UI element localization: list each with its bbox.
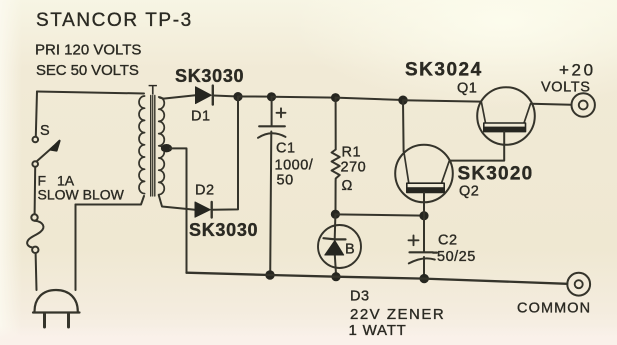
svg-text:SK3024: SK3024 — [405, 60, 483, 81]
zener D3 circle — [318, 225, 361, 268]
transistor Q1 base bar — [484, 123, 526, 132]
capacitor C1 curved plate — [258, 133, 286, 138]
AC plug body dome — [35, 290, 78, 312]
svg-text:R1: R1 — [342, 145, 362, 161]
transformer T primary winding — [139, 96, 145, 194]
transformer T secondary winding — [159, 97, 165, 195]
wire: fuse to plug left — [35, 253, 38, 290]
svg-text:PRI 120 VOLTS: PRI 120 VOLTS — [35, 42, 141, 59]
terminal: common — [567, 273, 590, 296]
switch S bottom terminal — [32, 161, 38, 167]
transistor Q2 base bar — [407, 183, 444, 192]
transistor Q1 circle — [477, 87, 535, 145]
svg-text:50/25: 50/25 — [437, 249, 476, 265]
svg-text:STANCOR TP-3: STANCOR TP-3 — [36, 10, 193, 31]
wire: top-left from corner to transformer primary top — [37, 92, 144, 94]
svg-text:1000/: 1000/ — [275, 158, 314, 174]
svg-text:SK3020: SK3020 — [458, 164, 534, 185]
diode D1 — [196, 87, 212, 104]
wire: rail to Q2 drop node — [336, 98, 404, 100]
zener D3 cathode bar — [324, 238, 346, 239]
fuse F bottom terminal — [32, 247, 38, 253]
capacitor C2 plus sign — [409, 236, 419, 246]
svg-text:D1: D1 — [191, 109, 211, 125]
AC plug base line — [33, 311, 80, 313]
wire: Q1 base down-left to Q2 — [450, 132, 504, 161]
wire: Q2 emitter lead — [423, 193, 425, 216]
wire: rail into Q1 — [403, 100, 481, 101]
svg-text:D3: D3 — [350, 289, 370, 305]
wire: C1 branch vertical bottom — [270, 132, 271, 276]
wire: secondary top to D1 anode — [160, 95, 196, 98]
wire: secondary bottom to D2 anode — [159, 195, 195, 210]
svg-text:T: T — [149, 82, 158, 98]
wire: center tap to down lead — [170, 148, 187, 272]
wire: plug right up to primary bottom run — [75, 205, 77, 291]
node: zener bottom — [331, 272, 340, 281]
svg-text:1 WATT: 1 WATT — [349, 322, 407, 339]
transistor Q2 left slant — [404, 153, 409, 184]
wire: Q1 emitter to +20 terminal — [532, 103, 572, 106]
svg-text:VOLTS: VOLTS — [541, 80, 590, 96]
node: C1 top — [267, 92, 276, 101]
svg-text:50: 50 — [277, 173, 294, 189]
svg-text:C1: C1 — [276, 141, 296, 157]
svg-text:270: 270 — [341, 160, 367, 176]
wire: switch to fuse — [34, 167, 37, 214]
svg-text:22V ZENER: 22V ZENER — [350, 306, 445, 323]
wire: rail to R1 node — [272, 96, 336, 99]
wire: primary bottom horizontal — [76, 196, 145, 205]
AC plug right prong — [67, 314, 70, 327]
switch S top terminal — [33, 137, 39, 143]
svg-text:D2: D2 — [195, 183, 215, 199]
wire: C2 branch vertical bottom — [423, 257, 425, 276]
capacitor C2 curved plate — [409, 258, 435, 263]
terminal: +20 volts — [572, 93, 595, 116]
svg-text:SEC 50 VOLTS: SEC 50 VOLTS — [36, 62, 139, 79]
svg-text:SLOW BLOW: SLOW BLOW — [38, 187, 125, 203]
transistor Q2 right slant — [442, 161, 450, 183]
transistor Q1 left slant — [482, 103, 486, 124]
transistor Q2 circle — [395, 145, 453, 203]
node: Q2 collector drop — [398, 96, 407, 105]
svg-text:Q2: Q2 — [459, 184, 479, 200]
capacitor C1 top plate — [259, 125, 285, 127]
fuse F top terminal — [31, 214, 37, 220]
transformer T center tap dot — [161, 144, 172, 152]
switch S blade tip blob — [51, 141, 60, 151]
svg-text:Ω: Ω — [342, 178, 353, 194]
svg-text:+20: +20 — [559, 61, 596, 80]
node: Q2 emitter / C2 top — [419, 211, 428, 220]
wire: top rail node to node — [238, 96, 272, 98]
wire: bottom rail — [187, 273, 568, 284]
node: C1 bottom — [265, 270, 274, 279]
zener D3 lead through — [335, 214, 336, 274]
fuse F element squiggle — [27, 221, 43, 248]
svg-text:COMMON: COMMON — [517, 301, 591, 317]
node: C2 bottom — [420, 274, 429, 283]
svg-text:SK3030: SK3030 — [189, 220, 258, 240]
capacitor C1 plus sign — [277, 108, 286, 117]
svg-text:C2: C2 — [438, 233, 458, 249]
node: R1 bottom / zener top — [331, 210, 340, 219]
transformer T core lines — [150, 96, 152, 197]
switch S blade — [37, 146, 55, 162]
transistor Q1 right slant — [524, 104, 531, 123]
node: R1 top — [331, 93, 340, 102]
wire: C2 branch vertical top — [423, 216, 425, 252]
zener D3 triangle — [325, 241, 344, 256]
svg-text:S: S — [40, 123, 50, 139]
wire: left vertical down to switch — [36, 92, 37, 137]
node: D1/D2 junction — [233, 92, 242, 101]
wire: D1 cathode to node — [214, 96, 239, 97]
diode D2 — [195, 202, 210, 217]
wire: Q2 collector drop — [402, 100, 405, 151]
svg-text:Q1: Q1 — [457, 81, 477, 97]
wire: C1 branch vertical top — [271, 97, 273, 126]
capacitor C2 top plate — [410, 251, 438, 254]
wire: D2 cathode right then up to top rail — [213, 97, 239, 210]
svg-text:B: B — [345, 242, 355, 258]
wire: zener node to Q2 emitter node — [335, 214, 424, 215]
AC plug left prong — [43, 314, 46, 327]
svg-text:SK3030: SK3030 — [175, 66, 244, 86]
resistor R1 — [332, 98, 340, 211]
